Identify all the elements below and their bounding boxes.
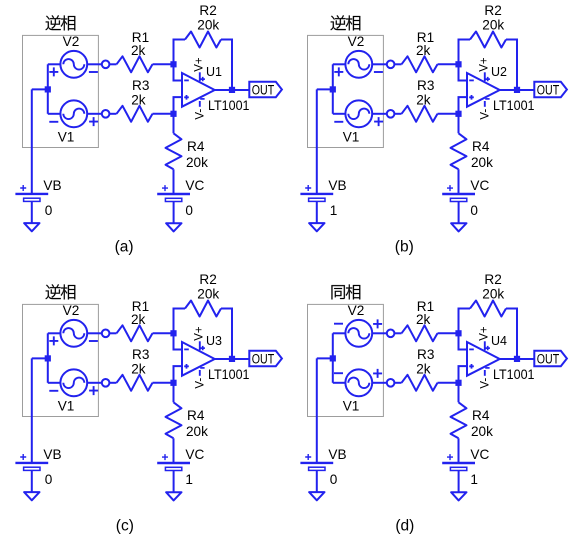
svg-text:R2: R2 <box>199 3 216 18</box>
pin node circle V1 <box>102 110 110 118</box>
wire V2 right <box>372 332 387 334</box>
svg-text:VB: VB <box>43 447 61 462</box>
wire circle to R3 <box>109 382 116 384</box>
svg-text:1: 1 <box>185 472 193 487</box>
wire down to VB <box>316 358 318 463</box>
wire R4 to VC <box>458 169 460 194</box>
wire node down to op-amp inverting input <box>459 333 468 349</box>
pin node circle V1 <box>387 379 395 387</box>
op-amp U3 (c) <box>182 341 215 376</box>
svg-text:LT1001: LT1001 <box>208 367 250 382</box>
wire corner to V1 left <box>48 113 61 115</box>
svg-text:VB: VB <box>328 447 346 462</box>
wire junction to VB branch <box>317 357 334 359</box>
node R3/R4 junction <box>170 111 176 117</box>
wire circle to R1 <box>109 332 116 334</box>
ground (VC) <box>451 492 466 500</box>
svg-text:V2: V2 <box>63 34 80 49</box>
svg-text:V+: V+ <box>194 326 206 341</box>
wire node up to op-amp non-inverting input <box>459 366 468 383</box>
wire V2 left to corner <box>48 63 61 65</box>
wire R1 to node <box>438 63 459 65</box>
wire R3 to node <box>153 382 174 384</box>
resistor R1 (a) <box>117 56 153 72</box>
svg-text:VB: VB <box>43 178 61 193</box>
wire down to VB <box>31 358 33 463</box>
wire node up to R2 <box>459 40 471 65</box>
wire VC to ground <box>458 471 460 492</box>
svg-text:(d): (d) <box>395 517 414 534</box>
resistor R4 (c) <box>166 402 182 438</box>
svg-text:OUT: OUT <box>252 83 274 98</box>
wire down to VB <box>316 89 318 193</box>
wire R4 to VC <box>173 438 175 463</box>
svg-text:2k: 2k <box>416 312 431 327</box>
wire node up to op-amp non-inverting input <box>174 366 183 383</box>
ground (VC) <box>166 223 181 231</box>
svg-text:VC: VC <box>470 178 489 193</box>
wire V2 right <box>87 332 102 334</box>
svg-text:(b): (b) <box>395 239 414 256</box>
wire circle to R3 <box>109 113 116 115</box>
node R1/R2 junction <box>170 330 176 336</box>
svg-text:V2: V2 <box>348 303 365 318</box>
pin node circle V1 <box>102 379 110 387</box>
svg-text:LT1001: LT1001 <box>208 98 250 113</box>
wire R2 to output branch <box>506 309 517 359</box>
wire circle to R3 <box>394 113 401 115</box>
svg-text:R3: R3 <box>417 347 434 362</box>
svg-text:R2: R2 <box>484 3 501 18</box>
resistor R3 (a) <box>117 106 153 122</box>
pin node circle V2 <box>102 61 110 69</box>
resistor R1 (c) <box>117 325 153 341</box>
resistor R2 (d) <box>470 301 506 317</box>
svg-text:VC: VC <box>185 178 204 193</box>
svg-text:2k: 2k <box>131 312 146 327</box>
wire op-amp output to OUT flag <box>500 89 535 91</box>
wire left vertical V2-V1 <box>47 64 49 114</box>
wire V2 right <box>372 63 387 65</box>
svg-text:VB: VB <box>328 178 346 193</box>
node output junction <box>514 87 520 93</box>
svg-text:V2: V2 <box>348 34 365 49</box>
wire circle to R3 <box>394 382 401 384</box>
wire V2 left to corner <box>333 63 346 65</box>
wire node up to R2 <box>174 309 186 334</box>
svg-text:V-: V- <box>479 378 491 389</box>
resistor R3 (d) <box>402 375 438 391</box>
wire VB to ground <box>316 202 318 223</box>
wire op-amp output to OUT flag <box>500 358 535 360</box>
svg-text:LT1001: LT1001 <box>493 98 535 113</box>
wire node down to R4 <box>458 114 460 134</box>
voltage source VB (b) <box>300 185 333 201</box>
svg-text:2k: 2k <box>416 43 431 58</box>
svg-text:2k: 2k <box>416 92 431 107</box>
svg-text:20k: 20k <box>482 287 504 302</box>
phase label 逆相 (b) <box>331 15 361 30</box>
svg-text:0: 0 <box>45 203 53 218</box>
voltage source VB (d) <box>300 454 333 470</box>
svg-text:0: 0 <box>330 472 338 487</box>
node R1/R2 junction <box>455 330 461 336</box>
wire R4 to VC <box>173 169 175 194</box>
pin node circle V2 <box>387 330 395 338</box>
svg-text:0: 0 <box>185 203 193 218</box>
svg-text:LT1001: LT1001 <box>493 367 535 382</box>
wire circle to R1 <box>394 63 401 65</box>
voltage source V2 (a) <box>49 51 98 78</box>
svg-text:2k: 2k <box>131 361 146 376</box>
wire V1 right <box>87 113 102 115</box>
voltage source V1 (a) <box>49 100 98 127</box>
svg-text:R2: R2 <box>199 272 216 287</box>
node R1/R2 junction <box>455 61 461 67</box>
voltage source VC (c) <box>157 454 190 470</box>
wire V1 right <box>372 113 387 115</box>
pin node circle V2 <box>102 330 110 338</box>
node output junction <box>229 87 235 93</box>
wire R1 to node <box>153 332 174 334</box>
voltage source V1 (d) <box>334 369 382 396</box>
resistor R2 (c) <box>185 301 221 317</box>
svg-text:2k: 2k <box>416 361 431 376</box>
svg-text:R4: R4 <box>472 139 490 154</box>
wire op-amp output to OUT flag <box>215 358 250 360</box>
pin node circle V2 <box>387 61 395 69</box>
wire R2 to output branch <box>221 309 232 359</box>
wire corner to V1 left <box>48 382 61 384</box>
wire junction to VB branch <box>32 88 49 90</box>
wire op-amp output to OUT flag <box>215 89 250 91</box>
node A junction <box>330 86 336 92</box>
output flag OUT (d) <box>534 351 567 367</box>
svg-text:R3: R3 <box>132 347 149 362</box>
voltage source V2 (b) <box>334 51 383 78</box>
wire circle to R1 <box>394 332 401 334</box>
voltage source V2 (d) <box>334 319 382 346</box>
resistor R3 (c) <box>117 375 153 391</box>
svg-text:VC: VC <box>185 447 204 462</box>
wire V1 right <box>87 382 102 384</box>
svg-text:R4: R4 <box>472 408 490 423</box>
wire left vertical V2-V1 <box>47 333 49 383</box>
svg-text:V-: V- <box>194 109 206 120</box>
resistor R1 (d) <box>402 325 438 341</box>
source group box (c) <box>23 304 99 416</box>
wire V2 left to corner <box>48 332 61 334</box>
op-amp U1 (a) <box>182 72 215 107</box>
wire R2 to output branch <box>506 40 517 90</box>
node R1/R2 junction <box>170 61 176 67</box>
svg-text:V+: V+ <box>479 57 491 72</box>
svg-text:20k: 20k <box>197 18 219 33</box>
wire V2 left to corner <box>333 332 346 334</box>
wire R1 to node <box>153 63 174 65</box>
voltage source VC (d) <box>442 454 475 470</box>
svg-text:R4: R4 <box>187 408 205 423</box>
svg-text:U3: U3 <box>206 334 222 348</box>
resistor R2 (a) <box>185 32 221 48</box>
wire node down to R4 <box>173 114 175 134</box>
wire node up to R2 <box>174 40 186 65</box>
source group box (a) <box>23 35 99 147</box>
pin node circle V1 <box>387 110 395 118</box>
svg-text:R3: R3 <box>417 78 434 93</box>
svg-text:1: 1 <box>470 472 478 487</box>
resistor R3 (b) <box>402 106 438 122</box>
wire circle to R1 <box>109 63 116 65</box>
svg-text:20k: 20k <box>482 18 504 33</box>
wire corner to V1 left <box>333 382 346 384</box>
wire V2 right <box>87 63 102 65</box>
phase label 逆相 (c) <box>46 284 76 299</box>
wire VB to ground <box>316 471 318 492</box>
svg-text:U1: U1 <box>206 65 222 79</box>
wire junction to VB branch <box>32 357 49 359</box>
resistor R2 (b) <box>470 32 506 48</box>
svg-text:V2: V2 <box>63 303 80 318</box>
svg-text:2k: 2k <box>131 43 146 58</box>
phase label 同相 (d) <box>331 284 360 299</box>
node R3/R4 junction <box>170 380 176 386</box>
svg-text:0: 0 <box>470 203 478 218</box>
svg-text:OUT: OUT <box>537 83 559 98</box>
svg-text:2k: 2k <box>131 92 146 107</box>
svg-text:U4: U4 <box>491 334 507 348</box>
wire R1 to node <box>438 332 459 334</box>
wire node down to R4 <box>173 383 175 403</box>
wire node down to R4 <box>458 383 460 403</box>
node R3/R4 junction <box>455 111 461 117</box>
svg-text:0: 0 <box>45 472 53 487</box>
wire R2 to output branch <box>221 40 232 90</box>
node R3/R4 junction <box>455 380 461 386</box>
voltage source V2 (c) <box>49 320 98 347</box>
source group box (b) <box>308 35 384 147</box>
wire node down to op-amp inverting input <box>459 64 468 80</box>
wire node down to op-amp inverting input <box>174 64 183 80</box>
voltage source V1 (b) <box>334 100 383 127</box>
phase label 逆相 (a) <box>46 15 76 30</box>
wire R3 to node <box>438 113 459 115</box>
output flag OUT (b) <box>534 82 567 98</box>
wire down to VB <box>31 89 33 193</box>
wire corner to V1 left <box>333 113 346 115</box>
svg-text:V-: V- <box>479 109 491 120</box>
resistor R4 (d) <box>451 402 467 438</box>
output flag OUT (c) <box>249 351 282 367</box>
wire V1 right <box>372 382 387 384</box>
wire VC to ground <box>173 202 175 223</box>
svg-text:OUT: OUT <box>252 352 274 367</box>
svg-text:(a): (a) <box>115 239 134 256</box>
wire R4 to VC <box>458 438 460 463</box>
svg-text:20k: 20k <box>471 424 493 439</box>
ground (VB) <box>309 492 324 500</box>
op-amp U4 (d) <box>467 341 500 376</box>
svg-text:20k: 20k <box>186 424 208 439</box>
node A junction <box>330 355 336 361</box>
voltage source V1 (c) <box>49 369 98 396</box>
wire node up to op-amp non-inverting input <box>174 97 183 114</box>
resistor R1 (b) <box>402 56 438 72</box>
resistor R4 (b) <box>451 133 467 169</box>
output flag OUT (a) <box>249 82 282 98</box>
resistor R4 (a) <box>166 133 182 169</box>
svg-text:1: 1 <box>330 203 338 218</box>
svg-text:V1: V1 <box>343 130 360 145</box>
wire VC to ground <box>458 202 460 223</box>
wire node up to R2 <box>459 309 471 334</box>
svg-text:20k: 20k <box>186 155 208 170</box>
svg-text:VC: VC <box>470 447 489 462</box>
node output junction <box>229 356 235 362</box>
node A junction <box>45 355 51 361</box>
svg-text:U2: U2 <box>491 65 507 79</box>
op-amp U2 (b) <box>467 72 500 107</box>
wire node down to op-amp inverting input <box>174 333 183 349</box>
svg-text:R3: R3 <box>132 78 149 93</box>
wire VB to ground <box>31 471 33 492</box>
wire junction to VB branch <box>317 88 334 90</box>
svg-text:V1: V1 <box>58 399 75 414</box>
svg-text:V+: V+ <box>194 57 206 72</box>
ground (VC) <box>166 492 181 500</box>
voltage source VB (a) <box>15 185 48 201</box>
svg-text:V-: V- <box>194 378 206 389</box>
svg-text:20k: 20k <box>197 287 219 302</box>
voltage source VC (a) <box>157 185 190 201</box>
wire R3 to node <box>153 113 174 115</box>
node A junction <box>45 86 51 92</box>
ground (VC) <box>451 223 466 231</box>
svg-text:V1: V1 <box>58 130 75 145</box>
ground (VB) <box>24 492 39 500</box>
node output junction <box>514 356 520 362</box>
ground (VB) <box>309 223 324 231</box>
voltage source VB (c) <box>15 454 48 470</box>
ground (VB) <box>24 223 39 231</box>
voltage source VC (b) <box>442 185 475 201</box>
svg-text:R4: R4 <box>187 139 205 154</box>
svg-text:V+: V+ <box>479 326 491 341</box>
wire R3 to node <box>438 382 459 384</box>
source group box (d) <box>308 304 384 416</box>
wire left vertical V2-V1 <box>332 333 334 383</box>
svg-text:(c): (c) <box>116 517 134 534</box>
wire node up to op-amp non-inverting input <box>459 97 468 114</box>
svg-text:20k: 20k <box>471 155 493 170</box>
svg-text:R2: R2 <box>484 272 501 287</box>
svg-text:V1: V1 <box>343 399 360 414</box>
wire VB to ground <box>31 202 33 223</box>
wire left vertical V2-V1 <box>332 64 334 114</box>
svg-text:OUT: OUT <box>537 352 559 367</box>
wire VC to ground <box>173 471 175 492</box>
